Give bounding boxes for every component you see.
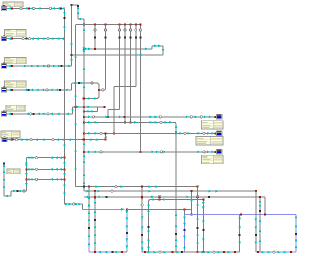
stub wire y=111.3 to spine V4 (83, 107, 97, 113)
bus drop D5 (129, 24, 131, 123)
label table K1 (7, 169, 20, 174)
connector J6 (2, 136, 7, 142)
connector P3 (217, 149, 223, 154)
spine V2 (70, 4, 73, 66)
vertical net V1 daisy chain (63, 8, 66, 204)
loop L4 left edge (255, 191, 258, 252)
bus drop D4 (124, 24, 126, 123)
loop L1 right edge (blue) (126, 209, 129, 252)
loop L2 left edge (141, 186, 144, 253)
label table for connector P2 (196, 137, 223, 146)
wire y=122.3 to loop L2 right edge (84, 121, 176, 124)
bus drop D2 (104, 24, 106, 88)
top bus wire y=24 (76, 23, 141, 25)
stub wire from J5 wire up to crossover (71, 107, 74, 114)
stub wire down to blue net (264, 197, 266, 215)
bus drop D6 with jog to W2 (113, 24, 137, 134)
crossover wire y=106.8 (73, 106, 106, 109)
bottom feeder wire y=196.9 (84, 196, 265, 199)
bus drop D7 to W3 (139, 23, 141, 153)
loop L1 inner vertical (88, 187, 91, 252)
spine V4 from bus (83, 23, 86, 191)
left stub vertical x=4 (3, 163, 6, 196)
connector P2 (217, 131, 223, 136)
ladder rung 3 y=179.4 (26, 178, 64, 181)
loop L1 left edge (94, 191, 97, 252)
loop L4 right edge (blue) (295, 214, 298, 252)
connector J4 (2, 87, 7, 93)
wire W1 to connector P1 (84, 116, 217, 119)
bus drop D3 with jog to W1 (107, 24, 121, 118)
loop L2 inner wire hook (147, 196, 203, 253)
bus drop D1 (94, 24, 96, 50)
loop L3 right edge (238, 214, 241, 252)
loop L2 right edge (174, 122, 178, 252)
bottom feeder wire y=191.2 (84, 190, 257, 193)
loop L3 top jog (184, 208, 192, 210)
wire from J3 to spine V2 (7, 65, 72, 68)
loop L2 inner vertical lower (147, 215, 150, 252)
label table for connector J3 (5, 58, 27, 64)
loop L2 bottom edge (142, 251, 184, 254)
wire from J2 to vertical net V1 (7, 37, 65, 40)
label table for connector P3 (202, 155, 224, 164)
connector J1 (2, 5, 7, 11)
connector J3 (2, 63, 7, 69)
bridge wire y=209.3 (127, 208, 192, 210)
loop L4 inner vertical (259, 196, 262, 252)
loop L3 inner vertical (196, 187, 199, 254)
wire loop with rounded corners (71, 82, 100, 100)
wire from J5 to spine V3 (7, 113, 73, 116)
connector P1 (217, 114, 223, 119)
ladder rung 2 y=169.3 (26, 168, 64, 171)
stub wire W2 to J6 wire (104, 132, 107, 139)
bottom feeder wire y=186.7 (76, 185, 199, 188)
connector J5 (2, 111, 7, 117)
label table for connector P1 (202, 121, 224, 129)
blue net wire to loop L1 (82, 208, 127, 211)
spine V3 from bus left end (74, 24, 77, 186)
stub from loop to bus-drop D2 (99, 88, 106, 91)
wire W2 to connector P2 (84, 132, 217, 135)
stair wire from V2 top to bus (72, 5, 85, 25)
wire from J1 to vertical net V1 (7, 7, 65, 10)
connector J2 (2, 35, 7, 40)
label table for connector J6 (1, 131, 20, 138)
ladder rung 1 y=157.7 (26, 156, 64, 159)
wire from J6 across spines (7, 138, 107, 141)
blue net wire y=214.3 across loops L3 L4 (185, 213, 297, 215)
wire W3 to connector P3 (84, 151, 217, 154)
jog wire from left stub to ladder (4, 190, 26, 198)
stub net x=191.5 down to blue net (190, 190, 193, 215)
loop L4 bottom edge (256, 251, 296, 254)
wire from V1 bottom with jog to blue net (65, 203, 83, 210)
loop L1 bottom edge (89, 251, 127, 254)
loop L3 bottom edge (185, 251, 240, 254)
hook wire return y=54.8 (72, 54, 164, 57)
label table for connector J1 (3, 2, 23, 7)
label table for connector J5 (6, 105, 25, 111)
label table for connector J2 (5, 30, 27, 37)
wire from J4 to loop node (7, 89, 72, 92)
loop L3 left edge (183, 209, 186, 252)
label table for connector J4 (5, 81, 27, 87)
ladder left vertical x=26.4 (25, 158, 28, 191)
loop L3 second inner vertical (202, 199, 205, 254)
hook wire upper (84, 45, 164, 55)
